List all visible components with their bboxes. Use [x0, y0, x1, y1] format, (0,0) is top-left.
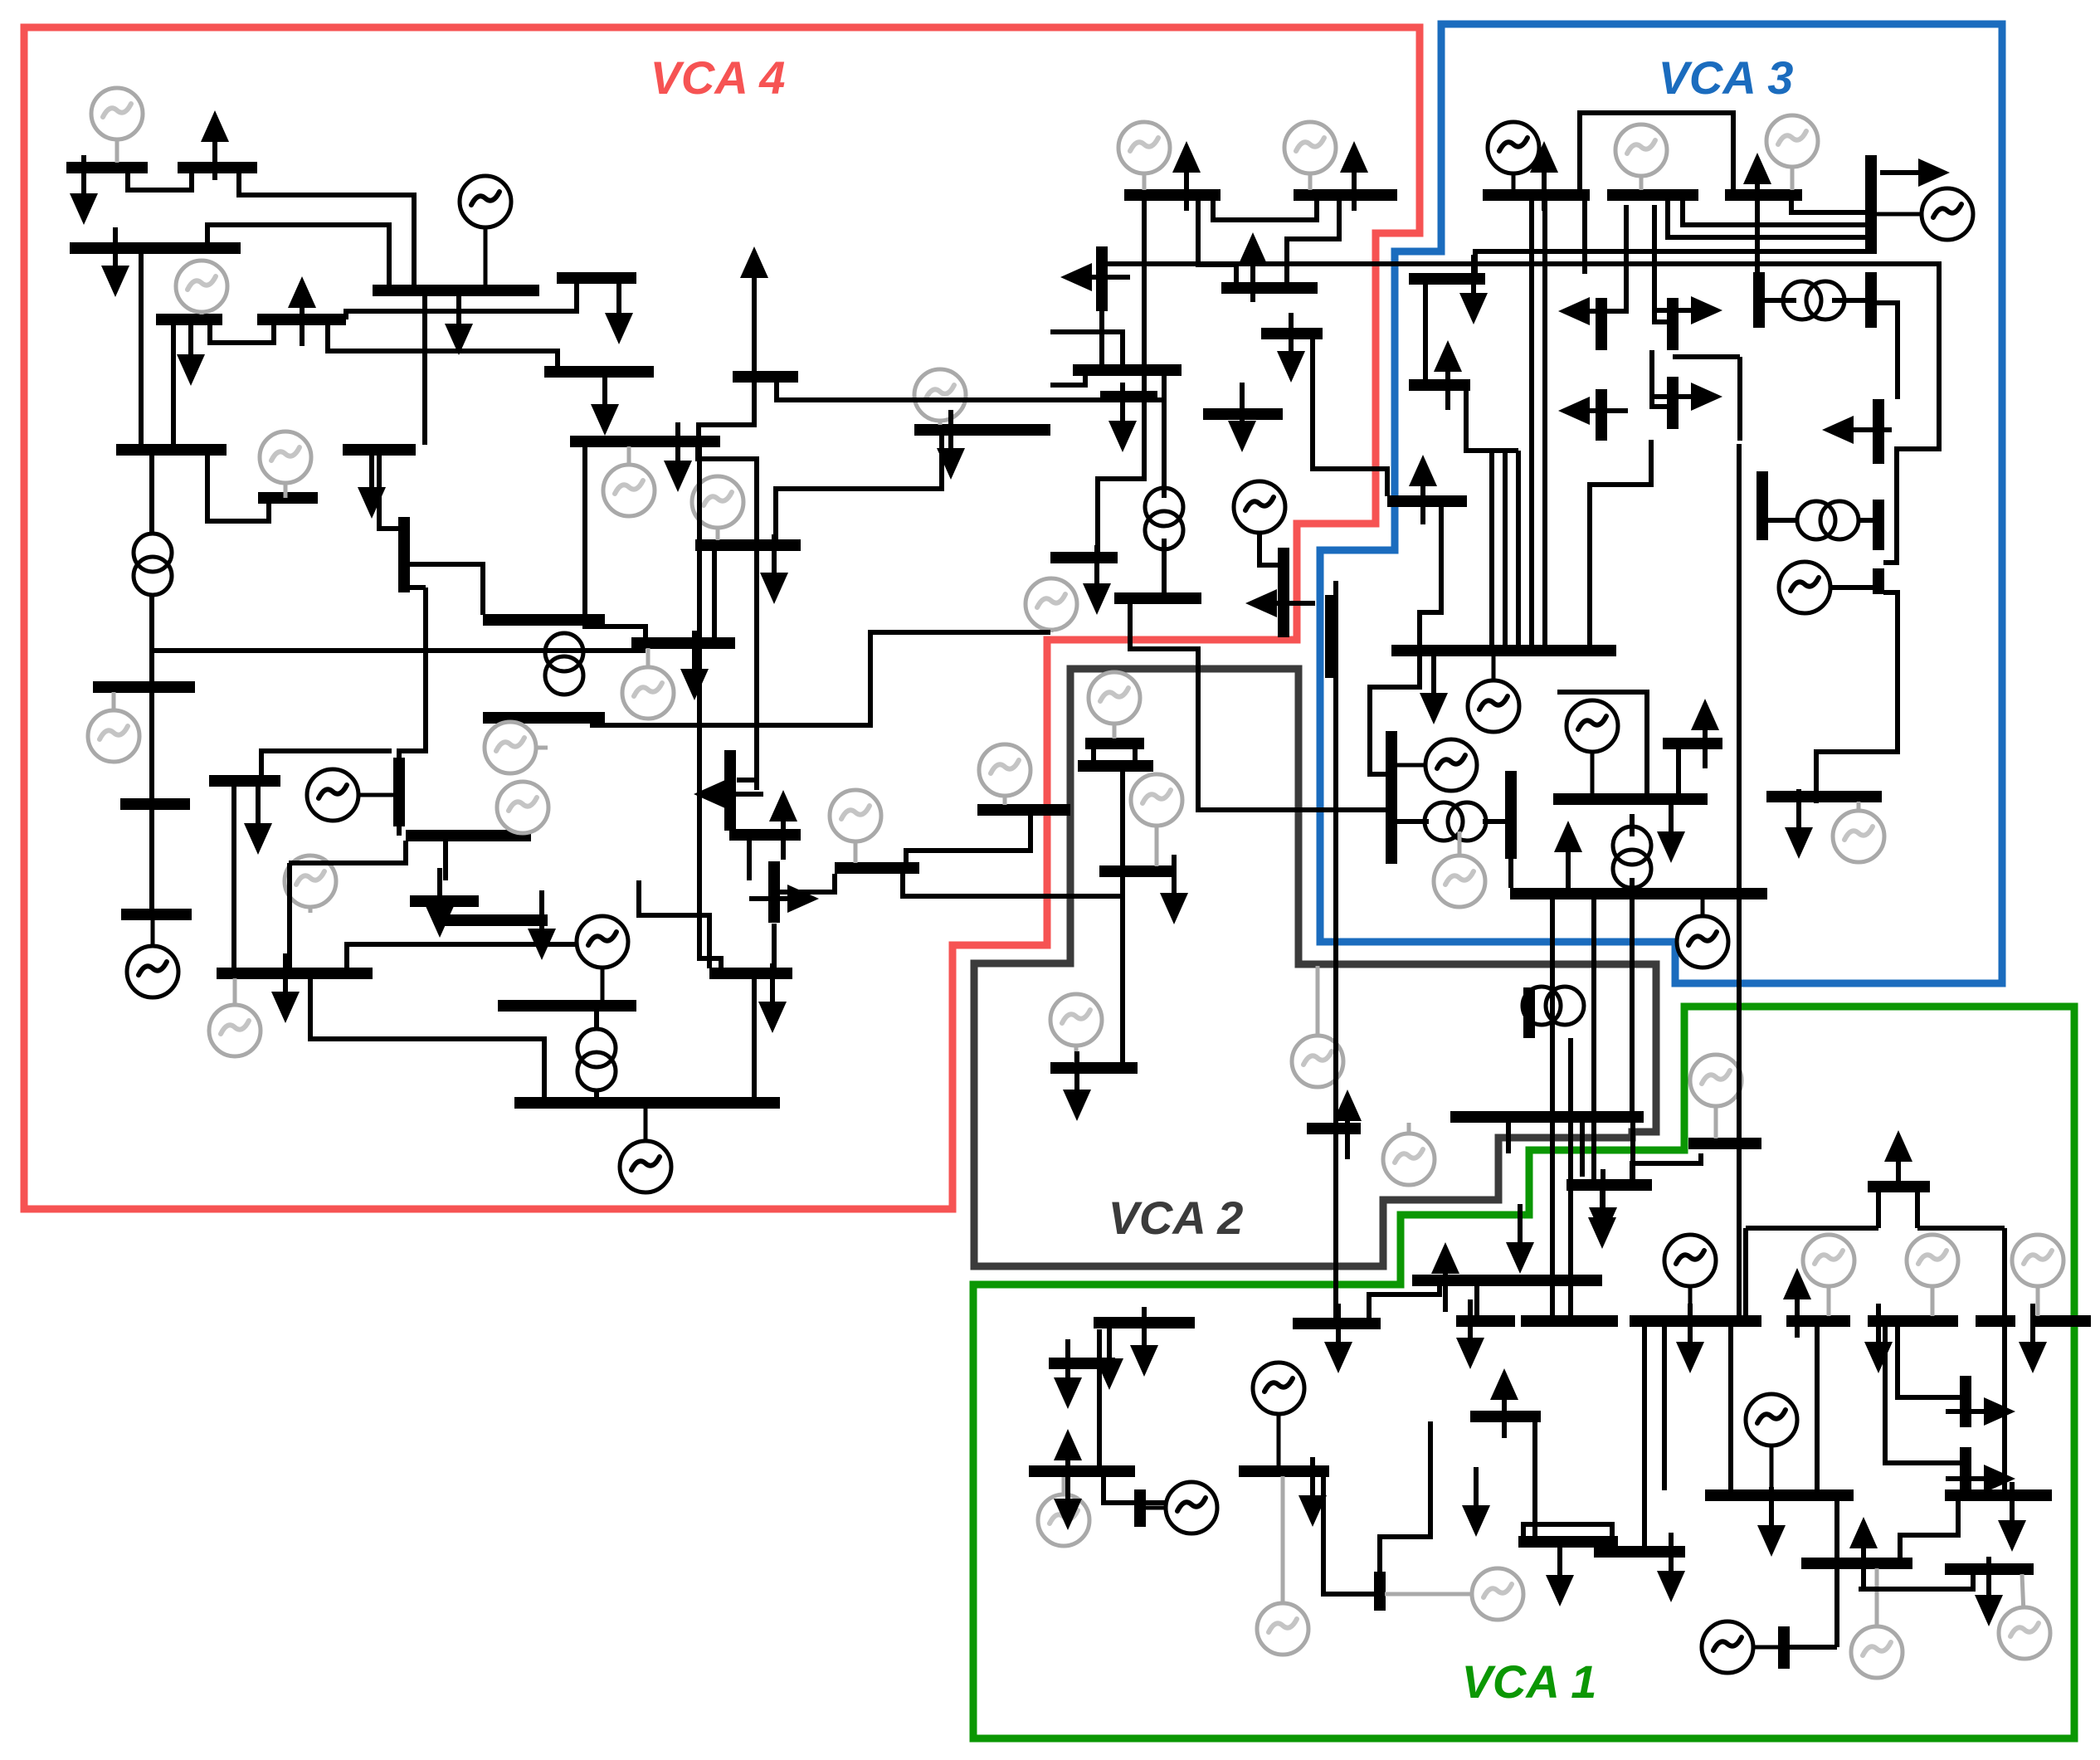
load arrow A32 — [760, 534, 788, 604]
bus VB12 (vertical) — [724, 750, 736, 831]
load arrow A77 — [1333, 1090, 1362, 1159]
load arrow A18 — [1060, 263, 1130, 291]
bus B30 — [570, 436, 720, 447]
wire W16 — [1130, 604, 1387, 810]
wire W128 — [397, 826, 402, 836]
wire W28 — [1683, 200, 1871, 225]
wire W2 — [239, 173, 414, 285]
load arrow A75 — [1589, 1169, 1617, 1239]
bus B79 — [1945, 1489, 2052, 1501]
wire W111 — [639, 880, 709, 968]
load arrow A40 — [528, 890, 556, 960]
bus B48 — [1566, 1179, 1652, 1191]
load arrow A76 — [445, 285, 473, 355]
svg-text:VCA 3: VCA 3 — [1659, 51, 1794, 104]
wire W63 — [1516, 451, 1521, 646]
wire W108 — [772, 924, 777, 971]
wire W105 — [1580, 1123, 1585, 1177]
bus B19 — [1409, 273, 1485, 285]
wire W124 — [408, 564, 483, 615]
generator (gray) G8 — [1615, 124, 1667, 190]
bus B69 — [1518, 1536, 1618, 1548]
bus B41 — [1391, 645, 1616, 656]
wire W13 — [698, 446, 757, 790]
load arrow A17 — [1530, 141, 1558, 211]
load arrow A11 — [1239, 232, 1267, 302]
load arrow A60 — [1783, 1268, 1811, 1338]
load arrow A25 — [1743, 153, 1771, 222]
wire W62 — [1503, 451, 1508, 646]
wire W101 — [1591, 900, 1596, 1182]
bus B63 — [1521, 1315, 1618, 1327]
wire W94 — [1898, 1326, 1961, 1397]
transformer TR9 — [1523, 987, 1584, 1025]
wire W129 — [443, 841, 448, 880]
load arrow A6 — [605, 275, 633, 344]
wire W114 — [231, 787, 236, 968]
wire W122 — [152, 648, 646, 653]
load arrow A4 — [288, 276, 316, 346]
load arrow A74 — [1554, 821, 1582, 890]
load arrow A73 — [1975, 1557, 2003, 1626]
generator (gray) G20 — [1131, 774, 1182, 866]
bus B81 — [1450, 1111, 1644, 1123]
generator (gray) G16 — [622, 648, 674, 719]
generator (gray) G50 — [1038, 1477, 1089, 1546]
wire W70 — [1568, 1286, 1573, 1319]
bus B23 — [116, 444, 227, 456]
generator G29 — [577, 916, 628, 1001]
wire W118 — [149, 594, 154, 682]
load arrow A34 — [694, 780, 763, 808]
bus B37 — [977, 804, 1070, 816]
wire W14 — [585, 446, 646, 638]
svg-text:VCA 2: VCA 2 — [1108, 1192, 1244, 1244]
load arrow A59 — [1588, 1179, 1616, 1249]
load arrow A53 — [1298, 1457, 1327, 1527]
generator G32 — [1677, 899, 1728, 968]
bus VB23 (vertical) — [1960, 1376, 1971, 1427]
bus VB22 (vertical) — [1778, 1626, 1790, 1669]
wire W52 — [1676, 748, 1681, 802]
wire W31 — [1102, 264, 1939, 563]
load arrow A43 — [1063, 1051, 1091, 1121]
label VCA 1 — [1462, 1655, 1597, 1708]
bus B5 — [156, 314, 222, 325]
wire W92 — [1876, 1192, 1881, 1228]
load arrow A61 — [1676, 1304, 1704, 1373]
generator G30 — [620, 1108, 671, 1192]
wire W3 — [207, 225, 389, 285]
wire W89 — [1917, 1226, 2005, 1231]
generator (gray) G17 — [830, 790, 881, 863]
wire W64 — [1529, 200, 1534, 646]
wire W79 — [1145, 1500, 1166, 1505]
transformer TR8 — [1783, 281, 1844, 319]
bus VB2 (vertical) — [1865, 155, 1877, 254]
bus VB15 (vertical) — [1386, 731, 1397, 864]
bus B60 — [1293, 1318, 1381, 1329]
wire W130 — [737, 778, 757, 782]
generator G37 — [1145, 1482, 1217, 1533]
load arrow A72 — [1785, 789, 1813, 859]
wire W76 — [1097, 1329, 1102, 1358]
wire W136 — [594, 1089, 599, 1098]
transformer TR3 — [1145, 488, 1183, 549]
generator (gray) G49 — [1383, 1123, 1435, 1185]
generator (gray) G40 — [1385, 1568, 1523, 1620]
generator (gray) G48 — [1292, 966, 1343, 1087]
wire W1 — [128, 173, 192, 190]
generator (gray) G1 — [91, 88, 143, 163]
wire W69 — [1474, 1286, 1479, 1319]
load arrow A52 — [1054, 1460, 1082, 1530]
generator G2 — [460, 176, 511, 285]
load arrow A15 — [1459, 255, 1488, 324]
generator (gray) G6 — [1284, 122, 1336, 190]
wire W6 — [210, 324, 274, 343]
load arrow A1 — [201, 110, 229, 180]
bus B44 — [1099, 865, 1174, 877]
wire W85 — [1662, 1326, 1667, 1490]
load arrow A10 — [1340, 141, 1368, 211]
generator (gray) G14 — [603, 446, 655, 516]
bus B4 — [373, 285, 539, 296]
generator (gray) G44 — [1999, 1574, 2050, 1659]
bus B74 — [1976, 1315, 2015, 1327]
generator (gray) G5 — [1118, 122, 1170, 190]
bus VB3 (vertical) — [1865, 272, 1877, 328]
load arrow A35 — [769, 790, 797, 860]
wire W55 — [1630, 900, 1635, 1111]
load arrow A45 — [1431, 1242, 1459, 1312]
generator (gray) G55 — [1434, 831, 1485, 907]
bus VB20 (vertical) — [1134, 1489, 1146, 1527]
wire W93 — [1915, 1192, 1920, 1228]
bus B57 — [514, 1097, 780, 1109]
wire W127 — [261, 751, 392, 787]
wire W131 — [747, 841, 752, 880]
wire W19 — [1162, 539, 1167, 593]
region boundary VCA1 — [973, 1007, 2074, 1738]
wire W51 — [1557, 692, 1647, 795]
generator (gray) G19 — [1089, 672, 1140, 739]
wire W54 — [1630, 878, 1635, 888]
load arrow A69 — [1946, 1465, 2015, 1493]
bus B68 — [1470, 1411, 1541, 1422]
load arrow A54 — [1456, 1299, 1484, 1369]
wire W32 — [1423, 284, 1428, 380]
generator (gray) G43 — [1851, 1568, 1903, 1678]
svg-text:VCA 1: VCA 1 — [1462, 1655, 1597, 1708]
bus B25 — [120, 798, 190, 810]
wire W115 — [287, 863, 292, 968]
wire W125 — [408, 585, 426, 590]
load arrow A48 — [1095, 1320, 1123, 1390]
bus B2 — [178, 162, 257, 173]
bus B47 — [1510, 888, 1767, 900]
bus B24 — [93, 681, 195, 693]
load arrow A56 — [1546, 1537, 1574, 1606]
wire W116 — [289, 841, 406, 863]
bus VB14 (vertical) — [1278, 548, 1289, 637]
load arrow A8 — [591, 366, 619, 436]
bus B12 — [1294, 189, 1397, 201]
load arrow A27 — [1245, 589, 1315, 617]
generator (gray) G12 — [88, 692, 139, 762]
bus VB17 (vertical) — [1756, 471, 1768, 540]
bus B40 — [1387, 495, 1467, 507]
wire W73 — [1091, 748, 1096, 761]
bus VB10 (vertical) — [398, 517, 410, 592]
bus B45 — [1553, 793, 1708, 805]
bus B36 — [835, 862, 919, 874]
bus B8 — [733, 371, 798, 383]
load arrow A29 — [1420, 655, 1448, 724]
wire W39 — [1652, 350, 1668, 407]
bus VB13 (vertical) — [768, 861, 780, 923]
svg-text:VCA 4: VCA 4 — [650, 51, 786, 104]
bus VB6 (vertical) — [1667, 298, 1679, 350]
wire W45 — [1590, 440, 1651, 646]
wire W47 — [1767, 518, 1796, 523]
wire W78 — [1104, 1477, 1135, 1503]
wire W67 — [1333, 581, 1338, 1319]
wire W29 — [1668, 200, 1871, 237]
wire W20 — [1099, 311, 1104, 365]
bus B66 — [1029, 1465, 1135, 1477]
bus B33 — [483, 614, 605, 626]
wire W11 — [777, 382, 1164, 400]
generator (gray) G3 — [176, 261, 227, 314]
wire W43 — [1755, 200, 1760, 272]
bus VB18 (vertical) — [1873, 500, 1884, 550]
bus B14 — [1261, 328, 1323, 339]
load arrow A51 — [1054, 1429, 1082, 1499]
load arrow A46 — [1506, 1204, 1534, 1274]
bus B16 — [1100, 391, 1157, 402]
wire W8 — [422, 295, 427, 445]
wire W21 — [1050, 375, 1085, 385]
load arrow A68 — [1946, 1397, 2015, 1426]
load arrow A39 — [271, 953, 300, 1023]
generator (gray) G34 — [1803, 1235, 1854, 1316]
generator G24 — [1779, 562, 1873, 613]
bus B1 — [66, 162, 148, 173]
wire W133 — [906, 816, 1031, 863]
wire W57 — [1370, 506, 1441, 774]
bus B6 — [257, 314, 346, 325]
bus B76 — [1594, 1546, 1685, 1558]
bus B56 — [498, 1000, 636, 1012]
wire W34 — [1791, 200, 1871, 212]
load arrow A16 — [1434, 340, 1462, 410]
wire W17 — [1098, 200, 1144, 553]
generator G10 — [1877, 188, 1973, 240]
generator (gray) G39 — [1257, 1476, 1308, 1655]
wire W15 — [712, 551, 717, 638]
bus VB16 (vertical) — [1505, 771, 1517, 859]
bus B62 — [1456, 1315, 1515, 1327]
transformer TR7 — [577, 1029, 616, 1090]
bus B35 — [729, 829, 801, 841]
bus VB25 (vertical) — [1523, 987, 1535, 1038]
wire W23 — [1213, 200, 1317, 220]
generator (gray) G51 — [485, 722, 548, 773]
bus B26 — [258, 492, 318, 504]
bus B17 — [1203, 408, 1283, 420]
load arrow A9 — [1172, 141, 1201, 211]
generator G25 — [1566, 700, 1618, 795]
load arrow A31 — [664, 422, 692, 492]
bus B53 — [217, 968, 373, 979]
wire W90 — [1743, 1228, 1748, 1316]
bus B38 — [1050, 552, 1118, 563]
wire W112 — [310, 979, 544, 1098]
load arrow A23 — [1558, 397, 1628, 425]
bus VB19 (vertical) — [1873, 568, 1884, 594]
wire W74 — [1133, 748, 1138, 761]
wire W126 — [399, 587, 426, 758]
wire W82 — [1532, 1421, 1537, 1542]
load arrow A13 — [1108, 383, 1137, 452]
wire W120 — [149, 809, 154, 909]
bus B71 — [1630, 1315, 1761, 1327]
bus B77 — [1705, 1489, 1854, 1501]
wire W75 — [1120, 876, 1125, 1063]
bus VB8 (vertical) — [1596, 389, 1607, 441]
bus B54 — [410, 895, 479, 907]
bus B49 — [1688, 1138, 1761, 1149]
wire W95 — [1885, 1326, 1961, 1463]
bus B29 — [406, 830, 531, 841]
wire W5 — [171, 324, 176, 445]
generator G38 — [1253, 1363, 1304, 1466]
wire W26 — [1313, 339, 1387, 496]
wire W119 — [149, 693, 154, 799]
wire W58 — [1396, 819, 1429, 824]
generator (gray) G31 — [1690, 1055, 1742, 1138]
load arrow A3 — [101, 227, 129, 297]
bus B13 — [1221, 282, 1318, 294]
generator G42 — [1702, 1621, 1779, 1673]
generator (gray) G28 — [209, 978, 261, 1056]
load arrow A49 — [1130, 1307, 1158, 1377]
load arrow A57 — [1462, 1467, 1490, 1537]
bus B80 — [1945, 1563, 2034, 1575]
load arrow A28 — [1409, 455, 1437, 524]
wire W40 — [1737, 357, 1742, 441]
load arrow A2 — [70, 155, 98, 225]
load arrow A30 — [937, 410, 965, 480]
load arrow A66 — [1849, 1517, 1878, 1587]
wire W121 — [207, 455, 269, 521]
bus B32 — [631, 637, 735, 649]
wire W22 — [1050, 332, 1123, 365]
wire W48 — [1860, 518, 1873, 523]
load arrow A14 — [1228, 383, 1256, 452]
bus B75 — [2034, 1315, 2091, 1327]
load arrow A20 — [1558, 297, 1628, 325]
wire W59 — [1483, 819, 1506, 824]
wire W61 — [1489, 451, 1494, 646]
generator G13 — [307, 769, 395, 821]
wire W36 — [1832, 298, 1871, 303]
bus B31 — [695, 539, 801, 551]
load arrow A70 — [1691, 699, 1719, 768]
load arrow A47 — [1324, 1304, 1352, 1373]
bus B42 — [1085, 738, 1144, 749]
bus B7 — [557, 272, 636, 284]
bus VB11 (vertical) — [393, 758, 405, 826]
wire W132 — [592, 632, 1050, 725]
wire W77 — [1097, 1369, 1102, 1465]
wire W91 — [2002, 1228, 2007, 1490]
wire W65 — [1542, 200, 1547, 646]
wire W109 — [778, 874, 835, 892]
generator (gray) G18 — [979, 744, 1031, 805]
generator (gray) G9 — [1766, 115, 1818, 190]
bus VB1 (vertical) — [1096, 246, 1108, 311]
bus VB26 (vertical) — [1325, 595, 1337, 678]
load arrow A22 — [1653, 383, 1722, 411]
bus B28 — [209, 775, 280, 787]
bus B61 — [1412, 1275, 1602, 1286]
generator (gray) G47 — [1050, 994, 1102, 1063]
bus B72 — [1786, 1315, 1850, 1327]
wire W50 — [1816, 592, 1898, 803]
wire W25 — [1287, 200, 1339, 283]
wire W49 — [1830, 585, 1873, 590]
load arrow A71 — [1657, 793, 1685, 863]
wire W7 — [328, 324, 558, 368]
wire W113 — [347, 944, 576, 968]
load arrow A41 — [758, 963, 787, 1033]
load arrow A7 — [740, 246, 768, 380]
wire W60 — [1260, 532, 1284, 565]
wire W87 — [1815, 1326, 1820, 1490]
region boundary VCA2 — [974, 669, 1656, 1266]
wire W83 — [1523, 1524, 1612, 1546]
bus B55 — [444, 914, 548, 926]
load arrow A58 — [1884, 1130, 1912, 1185]
wire W100 — [1632, 1153, 1701, 1182]
bus B50 — [1868, 1181, 1930, 1192]
generator (gray) G35 — [1907, 1235, 1958, 1316]
bus VB4 (vertical) — [1753, 272, 1765, 328]
wire W137 — [1630, 1181, 1635, 1187]
region boundary VCA4 — [24, 27, 1420, 1209]
generator (gray) G15 — [692, 476, 743, 540]
bus B11 — [1124, 189, 1221, 201]
wire W27 — [1582, 200, 1587, 274]
wire W56 — [1508, 859, 1513, 888]
wire W53 — [1630, 814, 1635, 836]
wire W104 — [1550, 1123, 1555, 1319]
wire W84 — [1642, 1326, 1647, 1546]
wire W106 — [1506, 1123, 1511, 1153]
wire W4 — [139, 252, 144, 445]
transformer TR5 — [1797, 501, 1859, 539]
wire W24 — [1198, 200, 1236, 283]
wire W103 — [1550, 900, 1555, 1117]
bus VB21 (vertical) — [1374, 1572, 1386, 1611]
wire W72 — [1120, 771, 1125, 866]
bus VB7 (vertical) — [1667, 377, 1679, 429]
bus B51 — [1766, 791, 1882, 802]
load arrow A44 — [1160, 855, 1188, 924]
wire W9 — [346, 283, 577, 319]
